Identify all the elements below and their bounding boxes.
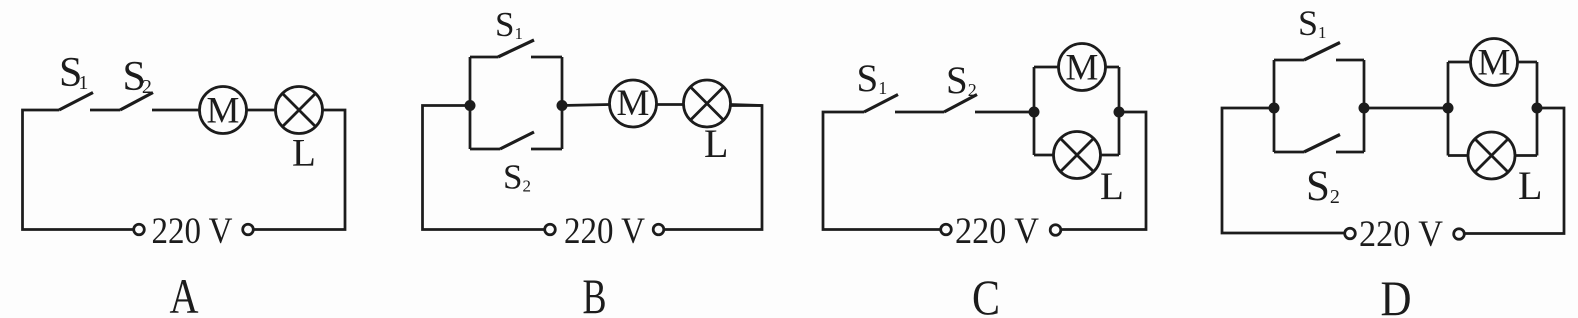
svg-text:C: C xyxy=(972,269,1000,318)
svg-text:M: M xyxy=(617,83,650,124)
svg-text:L: L xyxy=(292,132,316,175)
svg-text:L: L xyxy=(1518,163,1542,208)
svg-text:L: L xyxy=(1100,165,1124,208)
svg-text:A: A xyxy=(170,268,199,318)
svg-text:M: M xyxy=(1478,43,1511,84)
svg-text:M: M xyxy=(1066,48,1099,89)
svg-text:B: B xyxy=(583,268,607,318)
svg-text:L: L xyxy=(704,121,728,166)
svg-text:M: M xyxy=(207,91,240,132)
svg-text:220 V: 220 V xyxy=(1359,214,1443,255)
svg-text:220 V: 220 V xyxy=(564,211,645,252)
svg-text:220 V: 220 V xyxy=(152,211,233,252)
svg-text:D: D xyxy=(1381,270,1412,318)
svg-text:220 V: 220 V xyxy=(955,211,1039,252)
